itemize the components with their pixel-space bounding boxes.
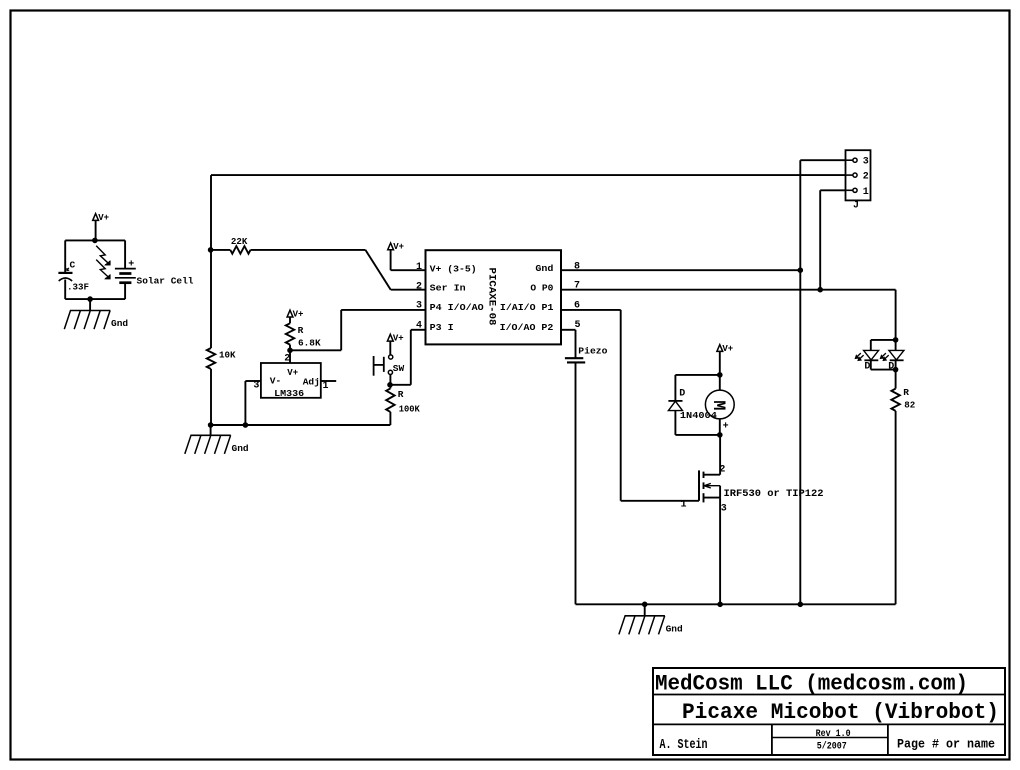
wire bus to ground symbol bbox=[644, 604, 646, 616]
svg-text:+: + bbox=[723, 422, 729, 433]
label pin 1 LM336 bbox=[323, 381, 329, 392]
svg-text:Gnd: Gnd bbox=[535, 263, 553, 274]
svg-text:R: R bbox=[398, 389, 404, 400]
label pin1 Q1 bbox=[681, 500, 687, 511]
label 1N4004 bbox=[680, 410, 717, 421]
resistor R 6.8K bbox=[286, 323, 321, 348]
power V+ (motor) bbox=[717, 344, 733, 354]
label D (D1) bbox=[679, 389, 685, 400]
resistor R 100K bbox=[386, 388, 420, 414]
svg-text:M: M bbox=[708, 400, 728, 410]
wire solar loop bottom bbox=[65, 298, 125, 300]
wire V+ to solar loop bbox=[95, 220, 97, 240]
svg-text:100K: 100K bbox=[399, 404, 420, 415]
label SW bbox=[393, 363, 405, 374]
pin name Ser In bbox=[430, 282, 466, 293]
svg-text:V+: V+ bbox=[393, 242, 404, 252]
node motor bottom junction bbox=[718, 433, 723, 438]
svg-text:2: 2 bbox=[719, 464, 725, 475]
wire pin8 gnd bbox=[561, 269, 800, 271]
ground (solar) bbox=[64, 311, 128, 330]
node gnd stem junction bbox=[642, 602, 647, 607]
label Adj LM336 bbox=[303, 376, 320, 387]
title text rev bbox=[816, 729, 851, 740]
solar cell B1 plate long2 bbox=[115, 277, 136, 279]
wire pin4 riser bbox=[410, 330, 412, 385]
label pin8 bbox=[574, 261, 580, 272]
label IRF530 or TIP122 bbox=[724, 489, 824, 500]
svg-text:V-: V- bbox=[270, 375, 281, 386]
LED D3 triangle bbox=[889, 350, 904, 360]
wire J pin3 left bbox=[800, 159, 845, 161]
wire 22K to serin bbox=[251, 249, 366, 251]
svg-text:Gnd: Gnd bbox=[111, 318, 128, 329]
svg-text:1: 1 bbox=[323, 381, 329, 392]
wire V+ to pin1 bbox=[391, 250, 426, 270]
solar cell B1 plate short1 bbox=[119, 272, 131, 275]
wire motor top to diode bbox=[675, 375, 719, 401]
wire 100K to bus bbox=[389, 412, 391, 425]
svg-text:Picaxe Micobot (Vibrobot): Picaxe Micobot (Vibrobot) bbox=[682, 700, 999, 725]
label D (LED2) bbox=[888, 361, 894, 372]
title text company bbox=[655, 672, 968, 697]
svg-text:3: 3 bbox=[863, 157, 869, 168]
power V+ (switch) bbox=[387, 334, 403, 344]
wire solar loop top bbox=[65, 239, 125, 241]
node main bus gnd junction bbox=[208, 423, 213, 428]
motor M1 circle bbox=[705, 390, 734, 419]
label PICAXE-08 vertical bbox=[485, 268, 496, 326]
wire V+ to motor junction bbox=[719, 351, 721, 390]
wire bus to ground bbox=[210, 425, 212, 435]
diode D1 cathode bar bbox=[668, 400, 682, 402]
wire gnd bus left bbox=[211, 424, 391, 426]
resistor R 10K bbox=[207, 348, 236, 369]
pin name I/AI/O P1 bbox=[500, 302, 554, 313]
wire pin7 P0 bbox=[561, 289, 896, 291]
svg-text:2: 2 bbox=[863, 172, 869, 183]
svg-text:V+: V+ bbox=[287, 368, 298, 378]
wire diode to bottom bbox=[675, 411, 719, 435]
wire J pin1 left bbox=[820, 189, 845, 191]
wire R82 to gnd bus bbox=[895, 411, 897, 604]
label pin 2 LM336 bbox=[284, 354, 290, 365]
label + (motor) bbox=[723, 422, 729, 433]
wire serin to pin2 bbox=[391, 289, 426, 291]
wire solar loop left upper bbox=[64, 240, 66, 273]
power V+ (solar) bbox=[93, 213, 109, 223]
label Piezo bbox=[578, 345, 607, 356]
wire pin4 horizontal bbox=[411, 329, 426, 331]
wire LED1 branch top bbox=[871, 340, 896, 351]
light arrow 2 bbox=[96, 260, 110, 279]
svg-text:3: 3 bbox=[416, 301, 422, 312]
label D (LED1) bbox=[864, 361, 870, 372]
wire motor bottom bbox=[719, 419, 721, 435]
label V- LM336 bbox=[270, 375, 281, 386]
resistor R 82 bbox=[891, 387, 915, 411]
svg-text:R: R bbox=[298, 325, 304, 336]
label J bbox=[853, 200, 859, 211]
wire pin5 P2 bbox=[561, 330, 576, 359]
node pin7 junction bbox=[818, 287, 823, 292]
motor M1 label bbox=[708, 400, 728, 410]
wire switch to junction bbox=[389, 375, 391, 389]
wire top rail bbox=[211, 174, 846, 176]
label pin2 Q1 bbox=[719, 464, 725, 475]
svg-text:J: J bbox=[853, 200, 859, 211]
label V+ LM336 bbox=[287, 368, 298, 378]
resistor R 22K bbox=[211, 236, 250, 254]
label pin2 bbox=[416, 281, 422, 292]
svg-text:D: D bbox=[679, 389, 685, 400]
switch SW plunger bbox=[374, 356, 384, 376]
svg-text:I/O/AO P2: I/O/AO P2 bbox=[500, 322, 554, 333]
LED D2 arrows bbox=[855, 353, 863, 360]
svg-text:5/2007: 5/2007 bbox=[817, 740, 847, 752]
node motor top junction bbox=[718, 373, 723, 378]
wire gnd riser bbox=[799, 160, 801, 604]
piezo element plate2 bbox=[567, 361, 585, 363]
LED D3 arrows bbox=[880, 353, 888, 360]
svg-text:Gnd: Gnd bbox=[232, 443, 249, 454]
svg-text:Piezo: Piezo bbox=[578, 345, 607, 356]
wire pin6 P1 horizontal bbox=[561, 309, 621, 311]
connector J pin2 stub bbox=[846, 172, 869, 183]
svg-text:Ser In: Ser In bbox=[430, 282, 466, 293]
svg-text:1: 1 bbox=[681, 500, 687, 511]
wire pin3 horizontal bbox=[341, 309, 425, 311]
svg-text:Adj: Adj bbox=[303, 376, 320, 387]
svg-text:82: 82 bbox=[904, 400, 915, 411]
capacitor C1 top plate bbox=[58, 272, 72, 274]
wire solar loop right lower bbox=[124, 283, 126, 299]
label pin4 bbox=[416, 320, 422, 331]
svg-text:10K: 10K bbox=[219, 350, 236, 361]
transistor Q1 drain lead bbox=[704, 472, 721, 478]
pin name V+ (3-5) bbox=[430, 264, 477, 275]
svg-text:1N4004: 1N4004 bbox=[680, 410, 717, 421]
wire solar loop right upper bbox=[124, 240, 126, 268]
title text date bbox=[817, 740, 847, 752]
wire up to pin3 bbox=[340, 310, 342, 350]
svg-text:Gnd: Gnd bbox=[666, 623, 683, 634]
node solar bottom junction bbox=[88, 297, 93, 302]
power V+ (ref) bbox=[287, 309, 303, 319]
value .33F bbox=[67, 282, 89, 293]
svg-text:A. Stein: A. Stein bbox=[660, 737, 708, 753]
label pin1 bbox=[416, 262, 422, 273]
svg-text:V+ (3-5): V+ (3-5) bbox=[430, 264, 477, 275]
piezo element plate1 bbox=[565, 357, 583, 359]
svg-text:6.8K: 6.8K bbox=[298, 337, 321, 348]
connector J pin3 stub bbox=[846, 157, 869, 168]
svg-text:IRF530 or TIP122: IRF530 or TIP122 bbox=[724, 489, 824, 500]
svg-text:MedCosm LLC (medcosm.com): MedCosm LLC (medcosm.com) bbox=[655, 672, 968, 697]
svg-text:P4 I/O/AO: P4 I/O/AO bbox=[430, 302, 484, 313]
transistor Q1 source lead bbox=[704, 493, 721, 502]
wire LM336 pin1 stub bbox=[321, 380, 336, 382]
svg-text:R: R bbox=[903, 387, 909, 398]
wire gnd bus bottom bbox=[576, 603, 896, 605]
wire V+ to switch bbox=[389, 341, 391, 355]
label pin5 bbox=[575, 320, 581, 331]
node LED split junction bbox=[893, 338, 898, 343]
label Solar Cell bbox=[137, 275, 194, 286]
wire main bus lower bbox=[210, 369, 212, 425]
solar cell B1 plate long1 bbox=[115, 268, 136, 270]
op-amp U2 LM336 box bbox=[261, 363, 321, 398]
wire source to gnd bus bbox=[719, 498, 721, 605]
svg-text:22K: 22K bbox=[231, 236, 248, 247]
node 6.8K junction bbox=[288, 348, 293, 353]
svg-text:1: 1 bbox=[863, 187, 869, 198]
svg-text:Rev 1.0: Rev 1.0 bbox=[816, 729, 851, 740]
wire J pin1 down bbox=[819, 190, 821, 289]
ground (bus) bbox=[619, 616, 683, 635]
wire solar to ground bbox=[89, 299, 91, 310]
node LM336 gnd junction bbox=[243, 423, 248, 428]
title text author bbox=[660, 737, 708, 753]
wire V+ to 6.8K bbox=[289, 317, 291, 323]
label pin3 Q1 bbox=[721, 503, 727, 514]
label pin7 bbox=[574, 281, 580, 292]
node solar top junction bbox=[93, 238, 98, 243]
svg-text:V+: V+ bbox=[722, 344, 733, 354]
LED D3 cathode bar bbox=[890, 359, 904, 361]
node LED join junction bbox=[893, 367, 898, 372]
label pin6 bbox=[574, 300, 580, 311]
capacitor C1 curved plate bbox=[59, 278, 72, 281]
svg-text:V+: V+ bbox=[393, 334, 404, 344]
wire drain riser bbox=[719, 435, 721, 475]
wire LM336 pin3 down bbox=[244, 381, 246, 425]
svg-text:PICAXE-08: PICAXE-08 bbox=[485, 268, 496, 326]
switch SW contact top bbox=[389, 355, 393, 359]
svg-text:LM336: LM336 bbox=[274, 388, 304, 399]
wire LED1 to join bbox=[871, 360, 896, 369]
wire junction to pin4 riser bbox=[390, 384, 410, 386]
label + (solar) bbox=[128, 260, 134, 271]
LED D2 triangle bbox=[864, 350, 879, 360]
node gnd riser junction bbox=[798, 602, 803, 607]
svg-text:C: C bbox=[70, 259, 76, 270]
title text project bbox=[682, 700, 999, 725]
pin name I/O/AO P2 bbox=[500, 322, 554, 333]
node switch junction bbox=[388, 383, 393, 388]
pin name P4 I/O/AO bbox=[430, 302, 484, 313]
wire gate horizontal bbox=[621, 500, 699, 502]
wire LM336 pin3 left bbox=[245, 380, 261, 382]
svg-text:+: + bbox=[128, 260, 134, 271]
label C bbox=[67, 259, 76, 270]
title text page bbox=[897, 737, 995, 752]
svg-text:3: 3 bbox=[721, 503, 727, 514]
svg-text:D: D bbox=[864, 361, 870, 372]
wire LED2 to join bbox=[895, 360, 897, 388]
power V+ (chip) bbox=[388, 242, 404, 252]
ground (main) bbox=[185, 435, 249, 454]
svg-text:P3 I: P3 I bbox=[430, 322, 454, 333]
label pin 3 LM336 bbox=[253, 381, 259, 392]
connector J pin1 stub bbox=[846, 187, 869, 198]
node 22K junction bbox=[208, 248, 213, 253]
svg-text:SW: SW bbox=[393, 363, 405, 374]
label LM336 bbox=[274, 388, 304, 399]
wire P0 riser down bbox=[895, 290, 897, 351]
node pin8 junction bbox=[798, 268, 803, 273]
svg-text:4: 4 bbox=[416, 320, 422, 331]
svg-text:I/AI/O P1: I/AI/O P1 bbox=[500, 302, 554, 313]
IC U1 PICAXE-08 box bbox=[426, 250, 562, 344]
svg-text:2: 2 bbox=[416, 281, 422, 292]
wire 6.8K to LM336 bbox=[289, 345, 291, 363]
LED D2 cathode bar bbox=[864, 359, 878, 361]
label pin3 bbox=[416, 301, 422, 312]
wire junction right bbox=[290, 349, 341, 351]
title block frame bbox=[653, 668, 1005, 755]
wire serin diagonal bbox=[365, 250, 390, 290]
switch SW contact bottom bbox=[388, 370, 392, 374]
wire solar loop left lower bbox=[64, 280, 66, 300]
diode D1 triangle bbox=[668, 401, 682, 410]
svg-text:3: 3 bbox=[253, 381, 259, 392]
transistor Q1 body arrow bbox=[704, 482, 721, 497]
svg-text:.33F: .33F bbox=[67, 282, 89, 293]
transistor Q1 gate bar bbox=[698, 470, 700, 500]
svg-text:V+: V+ bbox=[293, 309, 304, 319]
wire piezo to gnd bus bbox=[575, 362, 577, 604]
solar cell B1 plate short2 bbox=[119, 281, 131, 284]
wire pin6 riser down bbox=[620, 310, 622, 501]
svg-text:V+: V+ bbox=[98, 213, 109, 223]
pin name O P0 bbox=[530, 282, 553, 293]
wire main bus upper bbox=[210, 175, 212, 348]
svg-text:Solar Cell: Solar Cell bbox=[137, 275, 194, 286]
connector J box bbox=[846, 150, 871, 200]
pin name P3 I bbox=[430, 322, 454, 333]
node source gnd junction bbox=[718, 602, 723, 607]
svg-text:O P0: O P0 bbox=[530, 282, 553, 293]
svg-text:Page # or name: Page # or name bbox=[897, 737, 995, 752]
pin name Gnd bbox=[535, 263, 553, 274]
light arrow 1 bbox=[96, 246, 110, 265]
